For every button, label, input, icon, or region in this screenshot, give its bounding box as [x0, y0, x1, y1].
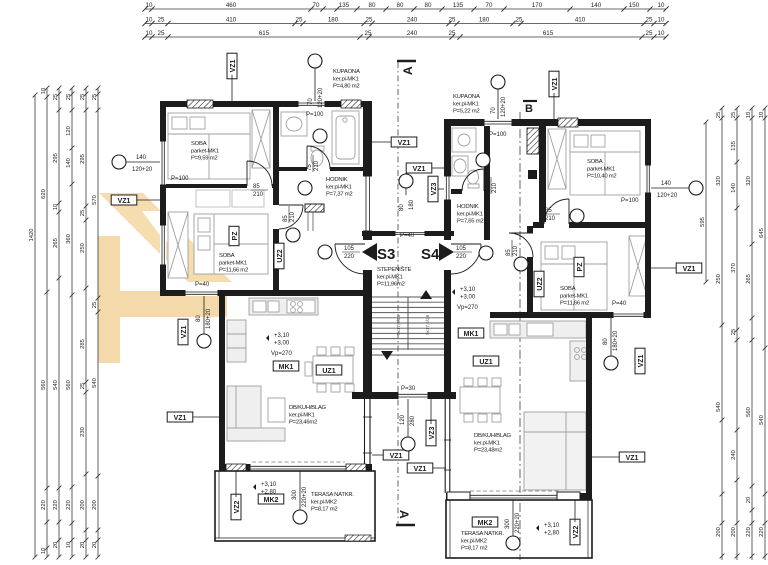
tag VZ3 mid [428, 176, 438, 202]
svg-text:120+20: 120+20 [318, 87, 324, 108]
svg-text:25: 25 [516, 17, 523, 24]
svg-text:250: 250 [80, 243, 86, 253]
svg-text:240: 240 [407, 17, 418, 24]
window S3 bath top P=100 [298, 101, 325, 107]
svg-text:VZ3: VZ3 [431, 182, 438, 195]
door arc S3 bedroom2 [279, 205, 303, 229]
wardrobe S4 room2 [629, 236, 647, 296]
shelf row S3 room2 [196, 190, 264, 207]
leader tag VZ1 right S4 [651, 267, 676, 269]
svg-text:120: 120 [66, 126, 72, 136]
svg-text:25: 25 [80, 94, 86, 100]
tag VZ1 S3 lower window [178, 319, 188, 345]
svg-text:75: 75 [485, 186, 491, 193]
svg-text:10: 10 [759, 112, 765, 118]
svg-text:A: A [401, 66, 415, 75]
svg-text:KUPAONAker.pl-MK1P=4,80 m2: KUPAONAker.pl-MK1P=4,80 m2 [333, 69, 360, 90]
svg-text:VZ1: VZ1 [552, 77, 559, 90]
leader tag VZ1 top S3 [231, 75, 233, 101]
svg-text:25: 25 [296, 17, 303, 24]
window S3 bedroom2 left [160, 225, 166, 265]
svg-text:80: 80 [196, 315, 202, 322]
tag VZ2 terrace S4 [570, 519, 580, 545]
leader tag VZ1 right living S4 [592, 456, 619, 458]
svg-text:135: 135 [339, 2, 350, 9]
leader tag VZ3 mid [438, 188, 444, 190]
svg-text:80: 80 [397, 2, 404, 9]
wardrobe S4 room1 [548, 129, 566, 189]
svg-text:1420: 1420 [29, 229, 35, 242]
leader circle window S3 left [126, 161, 160, 163]
svg-text:25: 25 [158, 30, 165, 37]
tag UZ1 S4 [473, 356, 499, 366]
svg-text:P=100: P=100 [171, 176, 189, 182]
svg-text:120: 120 [400, 414, 406, 425]
svg-text:85: 85 [506, 249, 512, 256]
wall S4 exterior right [645, 119, 651, 318]
svg-text:265: 265 [53, 238, 59, 248]
tag PZ S4 [574, 257, 584, 276]
svg-text:MK2: MK2 [478, 520, 493, 527]
svg-text:140: 140 [661, 181, 672, 187]
svg-text:MK1: MK1 [279, 364, 294, 371]
window staircase top P=40 [395, 231, 425, 236]
label door 75/210 S3 rot [307, 155, 320, 172]
svg-text:200: 200 [92, 500, 98, 510]
svg-text:10: 10 [146, 30, 153, 37]
wall S3 living bottom [219, 464, 372, 471]
svg-text:210: 210 [545, 216, 556, 222]
svg-text:220: 220 [456, 254, 467, 260]
door gap S4 bath [462, 189, 484, 194]
svg-text:25: 25 [66, 94, 72, 100]
svg-text:210: 210 [290, 211, 296, 222]
svg-text:180+20: 180+20 [613, 330, 619, 351]
svg-text:VZ1: VZ1 [230, 59, 237, 72]
svg-text:135: 135 [731, 141, 737, 151]
duct block S4 niche [528, 170, 537, 179]
tag UZ2 S3 [274, 243, 284, 269]
svg-text:595: 595 [700, 217, 706, 227]
circle window S4 mid 80 [604, 356, 618, 370]
tag PZ S3 [229, 226, 239, 245]
svg-text:25: 25 [366, 17, 373, 24]
tag VZ1 top S3 [227, 53, 237, 79]
svg-text:285: 285 [80, 339, 86, 349]
window S3 bedroom1 left 140 [160, 141, 166, 185]
svg-text:560: 560 [41, 380, 47, 390]
label 70/120+20 S4 top rot [491, 96, 507, 117]
leader tag VZ1 left living S3 [193, 416, 219, 418]
svg-text:300: 300 [292, 489, 298, 500]
label door 85/210 S4 rot [506, 240, 519, 257]
svg-text:180+20: 180+20 [206, 308, 212, 329]
svg-text:210: 210 [314, 160, 320, 171]
wall S3 exterior left [160, 101, 166, 296]
dimension col left E [96, 86, 101, 560]
door arc S3 bedroom1 [247, 161, 272, 186]
wall S3 partition bath bottom [279, 167, 372, 171]
svg-text:VZ1: VZ1 [626, 455, 639, 462]
svg-text:220: 220 [746, 527, 752, 537]
tag VZ1 top S4 [549, 71, 559, 97]
svg-text:UZ2: UZ2 [537, 277, 544, 290]
svg-text:P=40: P=40 [400, 233, 415, 239]
window staircase bottom P=30 [398, 392, 428, 399]
wall block S3 stairwall [363, 231, 372, 240]
tag VZ1 right living S4 [619, 452, 645, 462]
duct lines S3 hall [308, 212, 313, 231]
bed S3 room2 [194, 214, 268, 274]
door gap S3 bath [307, 167, 330, 171]
svg-text:540: 540 [716, 402, 722, 412]
wall S4 bedroom2 bottom [490, 312, 651, 318]
section marker B top [523, 101, 537, 115]
svg-text:230: 230 [80, 427, 86, 437]
svg-text:Vp=270: Vp=270 [271, 351, 293, 357]
svg-text:P=40: P=40 [612, 301, 627, 307]
svg-text:+3,10: +3,10 [261, 482, 277, 488]
leader circle window stairs small [405, 174, 407, 195]
entry arrow S4 [439, 243, 454, 261]
svg-text:25: 25 [80, 383, 86, 389]
dimension col right C [750, 106, 755, 560]
tag VZ1 mid lower [406, 163, 432, 173]
circle door S4 bath [476, 153, 490, 167]
label 140/120+20 S3 left [132, 155, 153, 173]
tag UZ1 S3 [316, 365, 342, 375]
svg-text:10: 10 [658, 17, 665, 24]
window sill S4 living bottom right [557, 492, 580, 500]
svg-text:85: 85 [253, 184, 260, 190]
svg-text:PZ: PZ [232, 231, 239, 241]
wall S3 partition hallway vertical [273, 188, 279, 290]
door arc S4 bedroom2 [509, 233, 533, 257]
door gap S4 bedroom1 [544, 222, 569, 228]
label 120/280 rot [400, 414, 416, 426]
dimension col left D [84, 86, 89, 560]
svg-text:70: 70 [486, 2, 493, 9]
svg-text:10: 10 [53, 204, 59, 210]
window S3 stairwall small [363, 176, 372, 231]
dimension col left A [45, 86, 50, 560]
circle window S3 mid 80 [197, 334, 211, 348]
label 300/220+20 S4 rot [505, 512, 521, 533]
bath fixtures S4 [452, 128, 479, 188]
svg-text:105: 105 [344, 246, 355, 252]
leader circle window S4 mid 80 [610, 318, 612, 356]
bath fixtures S3 [281, 111, 359, 166]
svg-text:220: 220 [759, 527, 765, 537]
level mark S3 living [266, 333, 290, 347]
door opening S3 entry [363, 240, 372, 270]
leader tag VZ1 mid lower [432, 167, 444, 169]
door S3 terrace slider [250, 464, 355, 471]
sofa S3 [227, 386, 285, 441]
svg-text:+3,00: +3,00 [460, 295, 476, 301]
leader tag VZ1 below stairs left [372, 454, 383, 456]
svg-text:P=40: P=40 [195, 282, 210, 288]
svg-text:120+20: 120+20 [132, 167, 153, 173]
circle terrace door S3 [293, 510, 307, 524]
section marker A bottom [396, 510, 415, 525]
tag VZ3 below stairs [426, 420, 436, 446]
terrace S4 outline [446, 500, 592, 558]
svg-text:+3,00: +3,00 [274, 341, 290, 347]
wall S3 exterior top [160, 101, 372, 107]
svg-text:140: 140 [136, 155, 147, 161]
leader circle window S3 mid 80 [203, 296, 205, 334]
door arc S4 entry [451, 244, 481, 274]
window sill S3 living bottom right [346, 464, 366, 471]
svg-text:220+20: 220+20 [515, 512, 521, 533]
svg-text:25: 25 [731, 112, 737, 118]
svg-text:200: 200 [731, 527, 737, 537]
svg-text:75: 75 [307, 164, 313, 171]
svg-text:360: 360 [66, 234, 72, 244]
watermark logo vertical band [98, 236, 120, 363]
tag MK1 S3 [273, 361, 299, 371]
svg-text:KUPAONAker.pl-MK1P=5,22 m2: KUPAONAker.pl-MK1P=5,22 m2 [453, 94, 480, 115]
leader tag VZ2 terrace S3 [235, 471, 237, 497]
svg-text:VZ3: VZ3 [429, 426, 436, 439]
window sill S3 top-left [187, 100, 213, 108]
svg-text:220: 220 [344, 254, 355, 260]
leader circle window S3 top [314, 68, 316, 101]
label 300/220+20 S3 rot [292, 486, 308, 507]
svg-text:+3,10: +3,10 [274, 333, 290, 339]
dimension col left B [57, 86, 62, 560]
svg-text:P=100: P=100 [621, 198, 639, 204]
svg-text:25: 25 [449, 30, 456, 37]
svg-text:170: 170 [532, 2, 543, 9]
svg-text:540: 540 [92, 378, 98, 388]
door gap S3 bedroom1 [247, 184, 272, 188]
staircase treads [372, 297, 448, 355]
label door 85/210 S4 hall [543, 208, 560, 222]
section line A-A [397, 62, 399, 524]
window S4 stairwall small [444, 176, 451, 200]
door gap S3 bedroom2 [273, 205, 279, 229]
svg-text:410: 410 [575, 17, 586, 24]
dimension col left C [70, 86, 75, 560]
coffee table S3 [268, 398, 285, 422]
kitchen counter S3 [249, 298, 318, 315]
bed S4 room1 [570, 131, 640, 195]
leader tag VZ1 left S3 [137, 199, 160, 201]
glazed wall S4 below stairs [444, 399, 451, 493]
door arc S4 bath [462, 169, 484, 191]
entry arrow S3 [362, 243, 377, 261]
svg-text:VZ1: VZ1 [683, 266, 696, 273]
door arc S4 bedroom1 [544, 199, 569, 224]
svg-text:295: 295 [80, 154, 86, 164]
circle door S3 entry [318, 245, 332, 259]
wall S3 middle horizontal [160, 290, 372, 296]
svg-text:10: 10 [41, 88, 47, 94]
terrace S3 outline [215, 471, 375, 541]
level mark S4 terrace [536, 523, 560, 537]
leader circle terrace door S3 [299, 471, 301, 510]
svg-text:S4: S4 [421, 246, 440, 263]
svg-text:P=30: P=30 [401, 386, 416, 392]
svg-text:VZ1: VZ1 [398, 140, 411, 147]
dimension col right part [704, 120, 709, 285]
stove S4 [570, 341, 590, 381]
label door 105/220 S4 [454, 246, 472, 260]
tag VZ2 terrace S3 [231, 494, 241, 520]
label door 105/220 S3 [342, 246, 360, 260]
window sill S3 living bottom left [226, 464, 246, 471]
svg-text:25: 25 [158, 17, 165, 24]
svg-text:25: 25 [92, 302, 98, 308]
svg-text:150: 150 [629, 2, 640, 9]
svg-text:10: 10 [658, 2, 665, 9]
circle door S4 hall [570, 209, 584, 223]
svg-text:25: 25 [646, 17, 653, 24]
label door 85/210 S3 hall [251, 184, 268, 198]
door dash S3 slider [252, 461, 345, 463]
leader tag VZ3 below stairs [430, 399, 432, 424]
circle door S3 hall [298, 181, 312, 195]
door dash S4 slider [470, 490, 560, 492]
leader tag VZ1 mid upper [372, 141, 391, 143]
window S4 bath top P=100 [484, 119, 512, 126]
svg-text:25: 25 [365, 30, 372, 37]
svg-text:200: 200 [716, 527, 722, 537]
wall S4 bath bottom [451, 189, 484, 194]
kitchen counter S4 [490, 321, 586, 338]
svg-text:300: 300 [505, 518, 511, 529]
svg-text:MK2: MK2 [264, 497, 279, 504]
leader tag VZ1 below stairs right [433, 467, 446, 469]
svg-text:140: 140 [66, 158, 72, 168]
leader circle door below stairs [407, 399, 409, 437]
dimension col left total 1420 [33, 93, 38, 560]
svg-text:70: 70 [308, 98, 314, 105]
label door 85/210 S3 rot [283, 206, 296, 223]
wall S4 exterior top [444, 119, 651, 126]
svg-text:250: 250 [716, 274, 722, 284]
door opening S4 entry [444, 240, 451, 270]
wall S3 stair-side right [363, 101, 372, 399]
svg-text:VZ1: VZ1 [174, 415, 187, 422]
svg-text:VZ2: VZ2 [573, 525, 580, 538]
svg-text:80: 80 [425, 2, 432, 9]
svg-text:220: 220 [41, 500, 47, 510]
door S4 terrace slider [470, 493, 560, 500]
svg-text:210: 210 [513, 245, 519, 256]
svg-text:10: 10 [146, 2, 153, 9]
tag MK1 S4 [458, 328, 484, 338]
label 140/120+20 S4 right [657, 181, 678, 199]
svg-text:20: 20 [80, 542, 86, 548]
leader tag VZ2 terrace S4 [574, 500, 576, 522]
leader circle window S4 top [497, 89, 499, 119]
staircase up arrow [420, 290, 432, 299]
svg-text:80: 80 [399, 204, 405, 211]
svg-text:135: 135 [453, 2, 464, 9]
svg-text:25: 25 [731, 329, 737, 335]
circle window S3 left [112, 155, 126, 169]
tag VZ1 below stairs right [407, 463, 433, 473]
dimension col right B [735, 106, 740, 560]
circle door below stairs [401, 437, 415, 451]
tag VZ1 right S4 [676, 263, 702, 273]
window sill S4 living bottom [447, 492, 470, 500]
svg-text:P=100: P=100 [306, 112, 324, 118]
svg-text:85: 85 [545, 208, 552, 214]
svg-text:295: 295 [53, 153, 59, 163]
svg-text:VZ1: VZ1 [413, 166, 426, 173]
wall S4 living bottom [446, 493, 592, 500]
svg-text:A: A [397, 510, 411, 519]
svg-text:25: 25 [53, 94, 59, 100]
window S3 middle 80 [185, 290, 218, 296]
leader tag VZ1 top S4 [553, 93, 555, 119]
wall S4 partition bath right [484, 126, 490, 240]
dimension row top 3 [142, 34, 668, 39]
svg-text:20: 20 [746, 497, 752, 503]
svg-text:VZ1: VZ1 [390, 453, 403, 460]
svg-text:140: 140 [731, 183, 737, 193]
watermark logo horizontal band [98, 291, 227, 317]
svg-text:9x17,2/28: 9x17,2/28 [425, 314, 430, 335]
label door 75/210 S4 rot [485, 177, 498, 194]
svg-text:10: 10 [658, 30, 665, 37]
section marker A top [397, 61, 416, 75]
circle window S4 top [491, 75, 505, 89]
svg-text:VZ1: VZ1 [414, 466, 427, 473]
wall S3 living left [219, 296, 225, 471]
svg-text:320: 320 [716, 176, 722, 186]
svg-text:540: 540 [759, 415, 765, 425]
svg-text:265: 265 [746, 274, 752, 284]
glazed wall S3 below stairs [363, 399, 372, 464]
window S4 bedroom1 right 140 [645, 165, 651, 193]
svg-text:20: 20 [53, 542, 59, 548]
level mark S3 terrace [253, 482, 277, 496]
svg-text:85: 85 [283, 215, 289, 222]
door arc S3 entry [335, 244, 365, 274]
bed S3 room1 [168, 113, 250, 179]
svg-text:410: 410 [226, 17, 237, 24]
tag VZ1 mid upper [391, 137, 417, 147]
svg-text:180: 180 [328, 17, 339, 24]
svg-text:210: 210 [253, 192, 264, 198]
wall S4 living right [586, 318, 592, 500]
svg-text:UZ1: UZ1 [322, 368, 335, 375]
level mark S4 living [452, 287, 476, 301]
wall S4 bedroom1 bottom [533, 222, 651, 228]
svg-text:320: 320 [746, 176, 752, 186]
svg-text:10: 10 [746, 112, 752, 118]
dimension col right A [720, 106, 725, 560]
svg-text:UZ1: UZ1 [479, 359, 492, 366]
svg-text:80: 80 [603, 338, 609, 345]
svg-text:615: 615 [543, 30, 554, 37]
label 80/180+20 S3 rot [196, 308, 212, 329]
svg-text:80: 80 [369, 2, 376, 9]
svg-text:560: 560 [746, 407, 752, 417]
svg-text:+3,10: +3,10 [460, 287, 476, 293]
label 80/180 stairs rot [399, 199, 415, 211]
svg-text:25: 25 [449, 17, 456, 24]
tag VZ1 S4 lower window [635, 348, 645, 374]
svg-text:70: 70 [491, 107, 497, 114]
svg-text:UZ2: UZ2 [277, 249, 284, 262]
svg-text:VZ1: VZ1 [118, 198, 131, 205]
